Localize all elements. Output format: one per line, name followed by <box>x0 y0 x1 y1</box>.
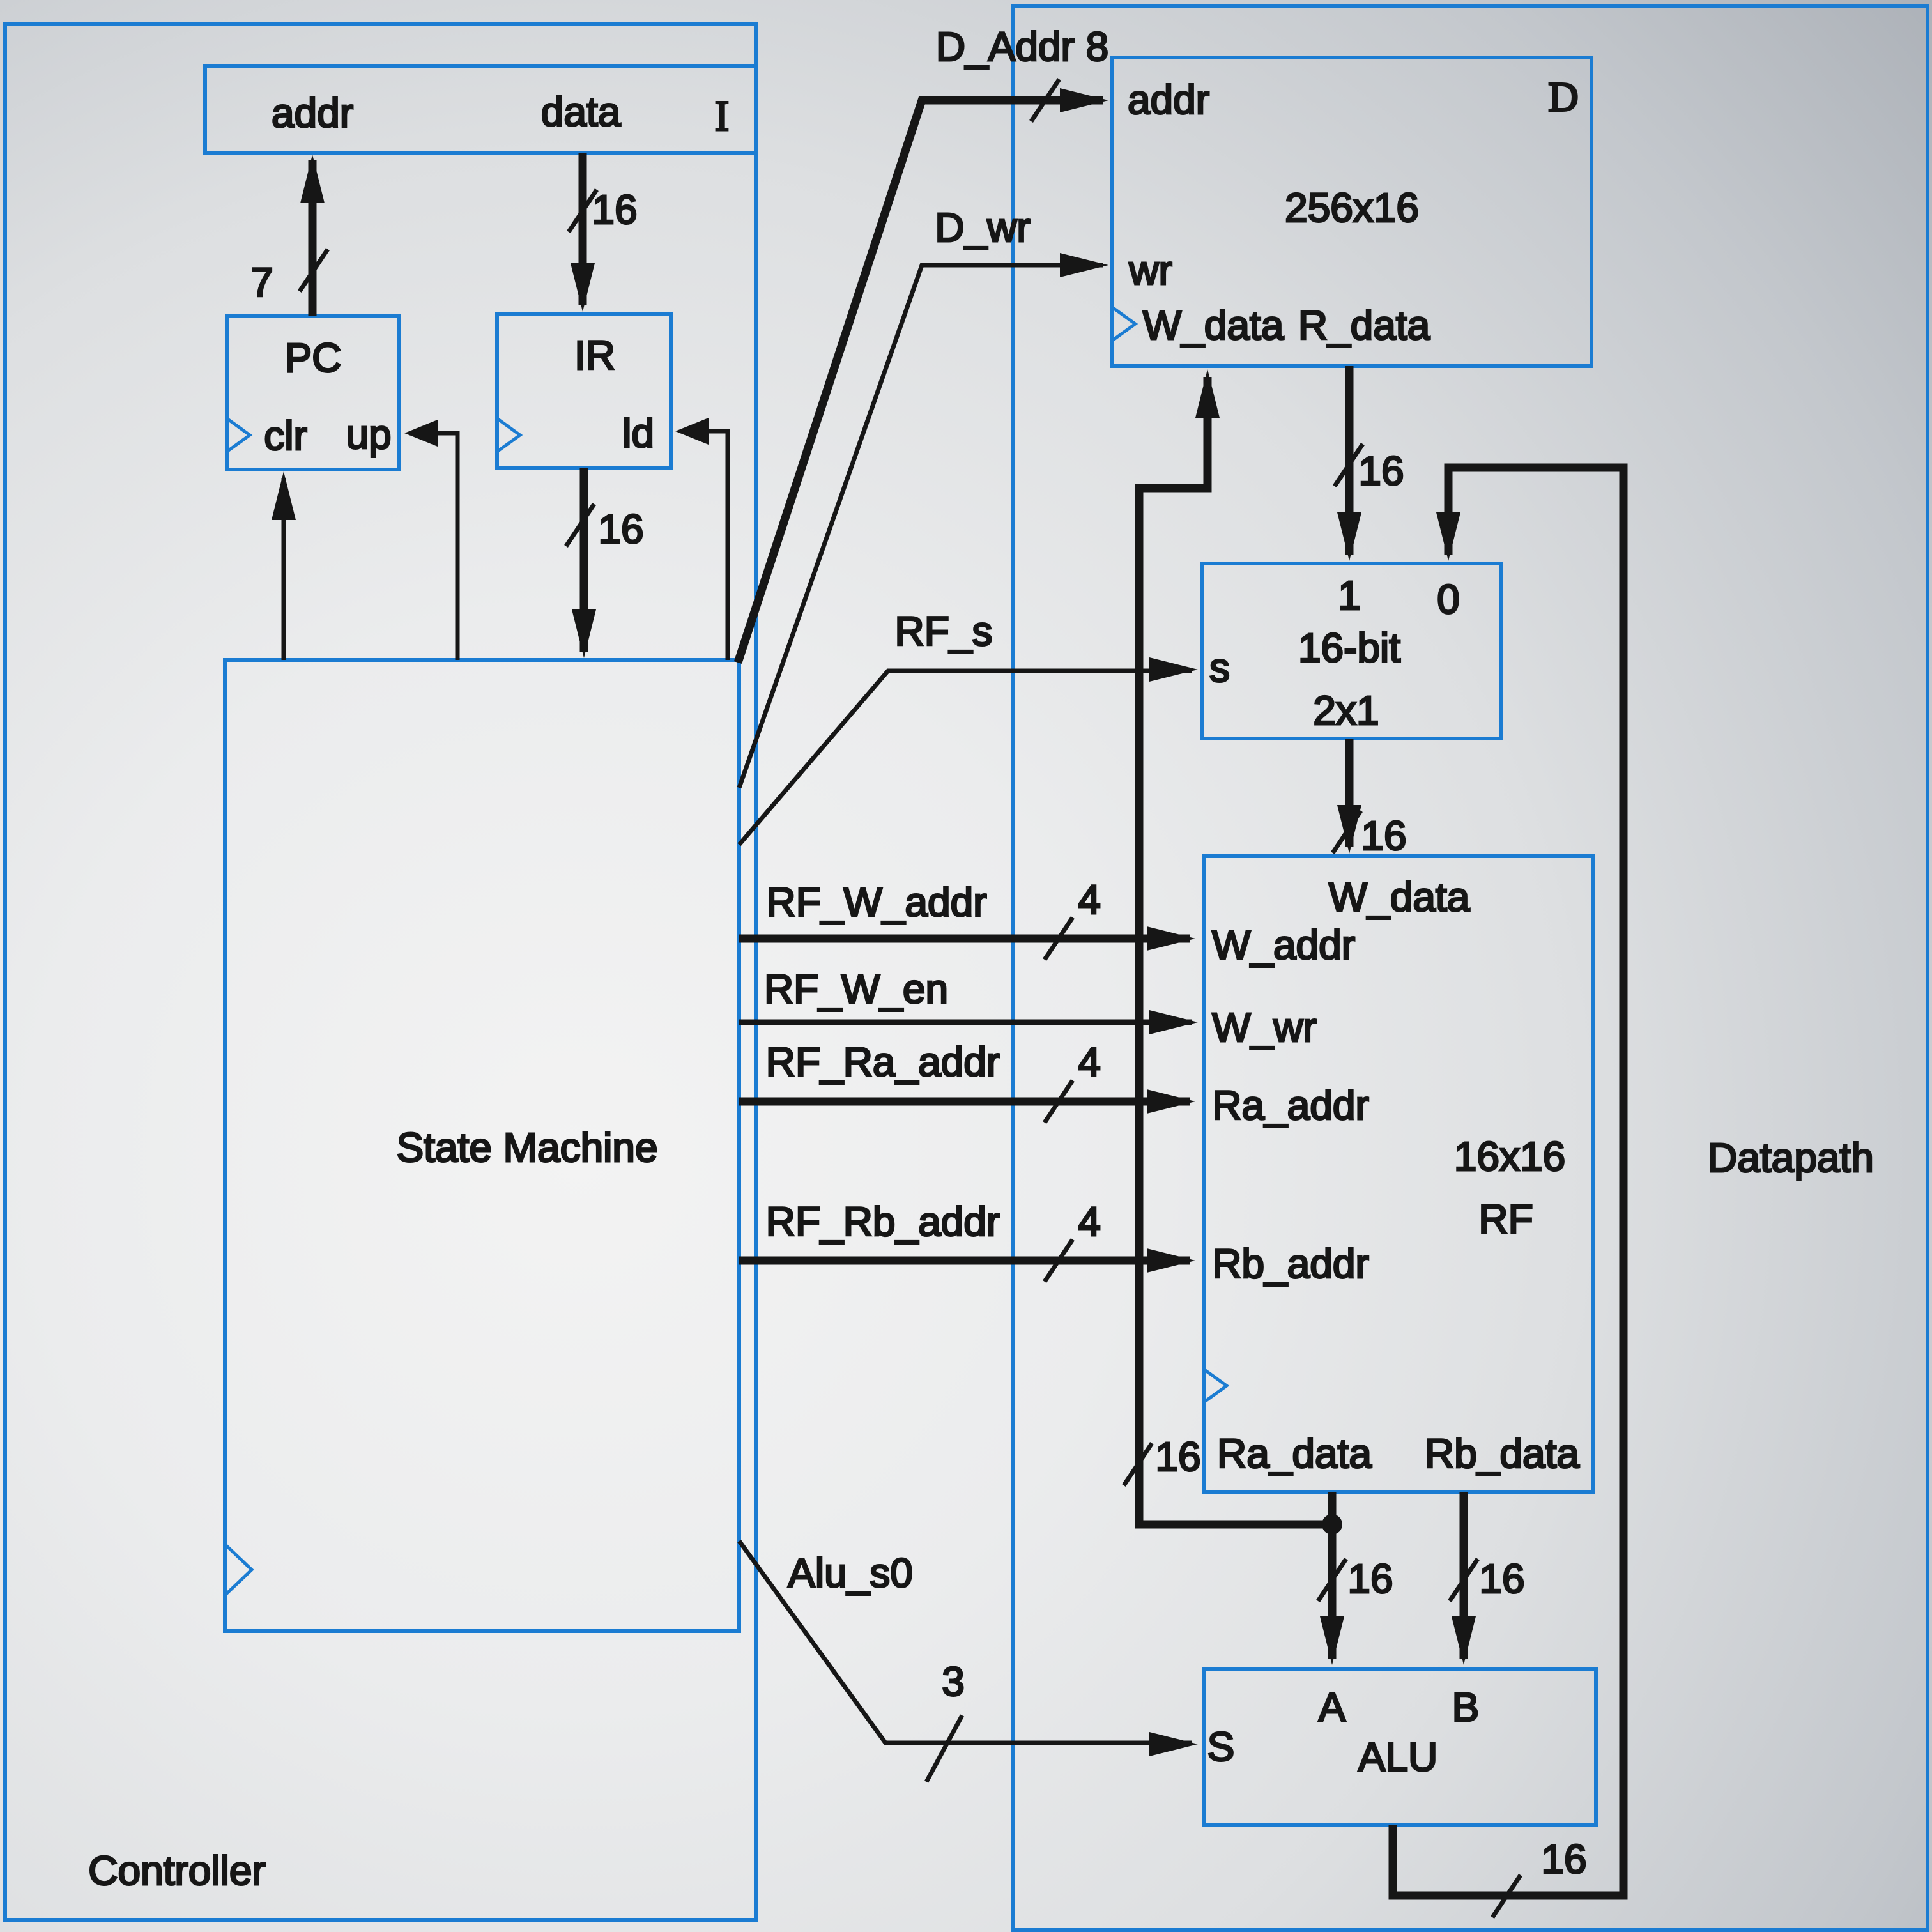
svg-text:2x1: 2x1 <box>1313 687 1379 733</box>
svg-text:1: 1 <box>1338 572 1361 618</box>
register file RF box <box>1204 856 1593 1492</box>
svg-text:A: A <box>1319 1684 1346 1730</box>
svg-text:up: up <box>346 411 391 457</box>
svg-text:16-bit: 16-bit <box>1298 625 1400 671</box>
bus width slash 16 <box>1450 1559 1478 1601</box>
bus width slash 3 <box>926 1715 962 1782</box>
wire I data to IR (16-bit bus) <box>579 153 587 305</box>
bus width slash 16 <box>1124 1443 1152 1485</box>
bus width slash 16 <box>1335 444 1363 486</box>
wire D R_data to mux input 1 (16-bit bus) <box>1345 366 1354 555</box>
wire Alu_s0 (3-bit bus to ALU S) <box>739 1541 1192 1743</box>
svg-text:0: 0 <box>1437 576 1460 622</box>
svg-text:W_data: W_data <box>1143 302 1284 348</box>
svg-text:data: data <box>541 89 621 135</box>
svg-text:W_data: W_data <box>1329 874 1470 920</box>
wire IR to State Machine (16-bit bus) <box>580 468 588 652</box>
register PC box <box>227 316 399 470</box>
clock input IR <box>497 418 520 452</box>
wire RF_Ra_addr (4-bit bus) <box>739 1098 1190 1106</box>
svg-text:D_Addr 8: D_Addr 8 <box>936 24 1108 70</box>
svg-text:Ra_data: Ra_data <box>1217 1430 1372 1476</box>
svg-text:7: 7 <box>250 259 273 305</box>
svg-text:ALU: ALU <box>1358 1734 1438 1780</box>
wire mux output to RF W_data (16-bit bus) <box>1345 739 1354 847</box>
svg-text:3: 3 <box>942 1659 965 1705</box>
clock input D <box>1112 307 1135 341</box>
svg-text:addr: addr <box>272 90 353 136</box>
svg-text:16: 16 <box>1361 813 1406 859</box>
wire State Machine to PC up <box>409 433 457 660</box>
svg-text:Ra_addr: Ra_addr <box>1212 1082 1369 1128</box>
wire Ra_data feedback to D W_data (16-bit bus) <box>1139 377 1332 1524</box>
svg-text:Datapath: Datapath <box>1708 1135 1874 1181</box>
wire RF_s (to mux s) <box>739 671 1192 845</box>
wire RF Rb_data to ALU B (16-bit bus) <box>1460 1492 1468 1659</box>
svg-text:IR: IR <box>574 332 615 378</box>
mux 16-bit 2x1 box <box>1202 563 1501 739</box>
wire RF_W_en <box>739 1020 1192 1025</box>
Controller block boundary <box>5 24 756 1920</box>
svg-text:16x16: 16x16 <box>1454 1133 1565 1179</box>
junction dot Ra_data <box>1322 1514 1342 1535</box>
bus width slash 16 <box>1318 1559 1346 1601</box>
wire ALU output feedback to mux input 0 (16-bit bus) <box>1393 468 1623 1896</box>
svg-text:16: 16 <box>1479 1556 1524 1602</box>
register IR box <box>497 314 671 468</box>
svg-text:W_wr: W_wr <box>1212 1004 1317 1050</box>
svg-text:addr: addr <box>1128 77 1209 123</box>
bus width slash 16 <box>566 504 594 546</box>
clock input RF <box>1204 1369 1227 1402</box>
svg-text:16: 16 <box>1347 1556 1393 1602</box>
State Machine box <box>225 660 739 1631</box>
svg-text:W_addr: W_addr <box>1212 922 1355 968</box>
svg-text:16: 16 <box>592 187 637 233</box>
wire RF_Rb_addr (4-bit bus) <box>739 1257 1190 1265</box>
clock input PC <box>227 418 250 452</box>
data memory D box <box>1112 57 1591 366</box>
svg-text:I: I <box>715 91 730 140</box>
svg-text:clr: clr <box>264 413 307 459</box>
svg-text:R_data: R_data <box>1298 302 1430 348</box>
wire State Machine to IR ld <box>680 431 728 660</box>
svg-text:D_wr: D_wr <box>935 204 1030 250</box>
bus width slash 4 <box>1045 1080 1073 1123</box>
svg-text:RF_Ra_addr: RF_Ra_addr <box>766 1039 1000 1085</box>
svg-text:16: 16 <box>598 506 643 552</box>
svg-text:S: S <box>1207 1724 1235 1770</box>
clock input State Machine <box>225 1544 252 1595</box>
bus width slash 4 <box>1045 1239 1073 1282</box>
bus width slash 16 <box>1492 1875 1521 1917</box>
svg-text:4: 4 <box>1078 1199 1101 1245</box>
wire State Machine to PC clr <box>282 478 286 660</box>
wire D_Addr (8-bit bus to D addr) <box>738 100 1103 663</box>
wire D_wr (to D wr) <box>739 265 1103 788</box>
instruction memory I box <box>205 66 756 153</box>
svg-text:D: D <box>1548 74 1579 121</box>
svg-text:RF: RF <box>1478 1196 1533 1242</box>
svg-text:ld: ld <box>622 410 654 456</box>
svg-text:PC: PC <box>285 335 342 381</box>
svg-text:RF_W_en: RF_W_en <box>764 966 948 1012</box>
svg-text:16: 16 <box>1155 1434 1200 1480</box>
svg-text:16: 16 <box>1358 448 1404 494</box>
svg-text:B: B <box>1452 1684 1480 1730</box>
svg-text:Alu_s0: Alu_s0 <box>788 1550 913 1596</box>
svg-text:4: 4 <box>1078 1039 1101 1085</box>
svg-text:RF_s: RF_s <box>895 608 993 654</box>
svg-text:Rb_addr: Rb_addr <box>1212 1241 1369 1287</box>
wire RF_W_addr (4-bit bus) <box>739 935 1190 943</box>
bus width slash 16 <box>1333 811 1361 853</box>
svg-text:RF_Rb_addr: RF_Rb_addr <box>766 1199 1000 1245</box>
bus width slash 8 <box>1031 79 1059 121</box>
svg-text:State Machine: State Machine <box>396 1124 657 1170</box>
svg-text:wr: wr <box>1128 247 1172 293</box>
bus width slash 4 <box>1045 917 1073 960</box>
svg-text:4: 4 <box>1078 877 1101 923</box>
svg-text:Rb_data: Rb_data <box>1425 1430 1579 1476</box>
wire PC to I addr (7-bit bus) <box>309 160 317 316</box>
svg-text:s: s <box>1209 645 1230 691</box>
bus width slash 16 <box>569 190 597 232</box>
wire RF Ra_data to ALU A (16-bit bus) <box>1328 1492 1337 1659</box>
ALU box <box>1204 1669 1596 1825</box>
svg-text:RF_W_addr: RF_W_addr <box>767 879 987 925</box>
Datapath block boundary <box>1013 6 1928 1930</box>
bus width slash 7 <box>300 249 328 291</box>
svg-text:Controller: Controller <box>88 1848 265 1894</box>
svg-text:256x16: 256x16 <box>1285 185 1419 231</box>
svg-text:16: 16 <box>1541 1836 1586 1882</box>
